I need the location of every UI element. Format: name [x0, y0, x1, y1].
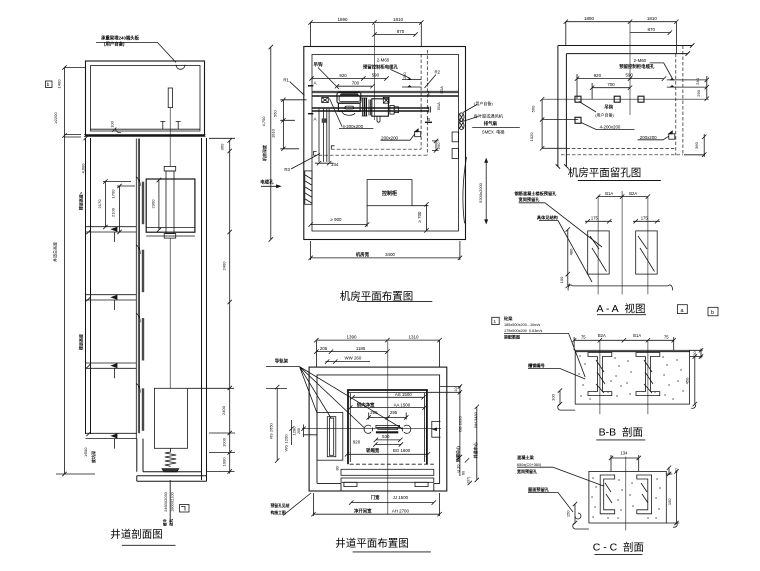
hoist rope lower [169, 238, 171, 388]
svg-text:200x200: 200x200 [640, 135, 657, 140]
beam section left [588, 231, 610, 274]
svg-text:砼梁: 砼梁 [504, 315, 513, 322]
svg-text:560: 560 [273, 109, 278, 116]
floor slab level2 [86, 227, 137, 242]
dim 360 [684, 134, 706, 157]
svg-text:井道平面布置图: 井道平面布置图 [335, 537, 409, 550]
dim 134 [609, 455, 641, 471]
marker box a [677, 305, 687, 314]
floor slab level4 [86, 363, 137, 378]
svg-text:B1A: B1A [436, 102, 441, 110]
svg-text:75: 75 [581, 334, 586, 339]
counterweight at pit [154, 388, 187, 448]
svg-text:机房宽: 机房宽 [356, 251, 370, 258]
gearbox flange [390, 105, 394, 114]
svg-text:250: 250 [436, 142, 441, 149]
svg-text:700: 700 [607, 82, 615, 87]
svg-text:1185: 1185 [356, 346, 366, 351]
section mark A bottom [308, 113, 313, 115]
car top wall [347, 389, 428, 391]
svg-text:920: 920 [594, 73, 602, 78]
shaft centerline vertical [387, 341, 389, 514]
dim 920 590 [575, 74, 666, 99]
guide rail leaders [266, 367, 402, 429]
dim 334 [315, 161, 334, 165]
centerline vertical [629, 22, 631, 115]
svg-text:U 20: U 20 [456, 464, 460, 472]
right wall rail bracket [432, 421, 441, 437]
ladder on left wall [305, 171, 312, 204]
dim 150 right CC [666, 469, 679, 527]
svg-text:920: 920 [353, 440, 361, 445]
sling bottom cap [164, 234, 176, 239]
pit front wall [137, 439, 143, 472]
svg-text:混凝土梁: 混凝土梁 [517, 454, 535, 461]
svg-text:4-200x200: 4-200x200 [342, 124, 363, 129]
I-beam left [588, 353, 612, 396]
svg-text:2170: 2170 [97, 199, 102, 209]
dim 50 BB [690, 348, 704, 359]
traction machine [337, 92, 361, 103]
svg-text:AS 1500: AS 1500 [395, 392, 412, 397]
svg-text:1800X2100: 1800X2100 [171, 492, 175, 511]
svg-text:60: 60 [462, 471, 466, 475]
door panel floor1 [142, 388, 144, 431]
dim 1390 1310 [314, 338, 442, 367]
dim 100 [566, 274, 570, 288]
note block 1 [492, 317, 499, 324]
svg-text:4,600: 4,600 [81, 163, 86, 174]
wall boxes right [452, 132, 458, 142]
svg-text:530: 530 [382, 434, 390, 439]
svg-text:≥2200: ≥2200 [53, 112, 58, 124]
svg-text:机房深度: 机房深度 [261, 144, 267, 161]
dim line 2300 car height [157, 178, 161, 232]
machine room inner wall [91, 66, 201, 132]
machine base [338, 103, 360, 111]
leader to structure note [283, 493, 311, 516]
svg-text:轿厢宽: 轿厢宽 [366, 447, 380, 454]
svg-text:R3: R3 [284, 167, 290, 172]
dim 5200x2000 rotated with arrows [485, 159, 487, 224]
svg-text:10: 10 [454, 387, 458, 391]
svg-text:≥ 900: ≥ 900 [331, 217, 343, 222]
car floor lines [146, 228, 195, 237]
svg-text:R2: R2 [435, 70, 441, 75]
front wall edge [135, 139, 137, 439]
right outer dimension line [188, 138, 235, 473]
machine beam 1 [312, 91, 459, 96]
svg-text:底坑: 底坑 [169, 519, 174, 528]
centerline horizontal [542, 98, 709, 100]
svg-text:100: 100 [551, 393, 556, 400]
svg-text:机房平面留孔图: 机房平面留孔图 [568, 166, 642, 179]
M60 arrows [408, 78, 411, 87]
buffer spring [165, 448, 176, 466]
car right wall [426, 390, 428, 464]
svg-text:295: 295 [390, 410, 398, 415]
svg-text:590: 590 [626, 72, 634, 77]
svg-text:b: b [47, 82, 50, 87]
machine centerline [374, 24, 376, 120]
svg-text:屋面预留孔: 屋面预留孔 [528, 486, 550, 493]
leader to B-B block [569, 333, 586, 377]
svg-text:920: 920 [339, 73, 347, 78]
motor in machine room [168, 88, 172, 108]
sheave side bars [363, 98, 367, 116]
marker box b2 [708, 307, 718, 316]
svg-text:100: 100 [110, 120, 115, 127]
svg-text:560: 560 [530, 105, 535, 112]
svg-text:构施工图: 构施工图 [271, 510, 286, 515]
svg-text:240: 240 [695, 77, 700, 84]
dim 920 590 [309, 76, 388, 80]
svg-text:1810: 1810 [393, 17, 404, 22]
concrete block CC [589, 471, 666, 523]
car sling vertical member [166, 171, 174, 234]
svg-text:净开间宽: 净开间宽 [354, 507, 372, 514]
svg-text:590: 590 [372, 73, 380, 78]
shaft right wall [202, 138, 207, 480]
brake drop [377, 116, 380, 122]
svg-text:井道总高度: 井道总高度 [52, 242, 58, 262]
car front dashed [350, 463, 434, 465]
svg-text:控制柜: 控制柜 [382, 190, 397, 197]
right dim cluster [428, 384, 479, 482]
svg-text:650x(C0+360): 650x(C0+360) [517, 463, 542, 467]
car cabin [146, 179, 195, 232]
svg-text:870: 870 [647, 27, 655, 32]
marker box b [46, 81, 53, 88]
svg-text:3400: 3400 [385, 252, 395, 257]
dim 205 1185 [314, 349, 389, 353]
svg-text:1390: 1390 [346, 335, 357, 340]
svg-text:梁配筋图: 梁配筋图 [503, 334, 520, 340]
svg-text:a: a [681, 308, 684, 314]
svg-text:200: 200 [297, 428, 301, 434]
svg-text:B2A: B2A [629, 191, 637, 196]
fan leaders [463, 105, 478, 122]
dim 450 BB [691, 354, 697, 408]
left dim 560 1020 [540, 97, 578, 151]
floor line with breaks [568, 285, 672, 290]
beam centerlines [598, 191, 648, 294]
svg-text:205: 205 [320, 346, 328, 351]
svg-text:290: 290 [696, 89, 701, 96]
concrete dots CC [592, 478, 660, 518]
MT outer left dim [269, 45, 273, 242]
svg-text:≥ 700: ≥ 700 [417, 211, 422, 223]
svg-text:导轨架: 导轨架 [275, 357, 289, 364]
dim 480 [566, 227, 570, 276]
note leader 1 [545, 203, 602, 247]
svg-text:A - A 视图: A - A 视图 [596, 302, 645, 315]
svg-text:2400: 2400 [222, 261, 227, 271]
leader CC [553, 467, 604, 486]
dim 700 [335, 84, 375, 88]
svg-text:B1A: B1A [633, 333, 641, 338]
shaft outer wall [309, 367, 447, 491]
hook T left [160, 122, 165, 130]
svg-text:150: 150 [667, 498, 672, 505]
dim >=900 [308, 206, 369, 227]
right dim 240 290 [705, 76, 709, 101]
svg-text:宽同预留孔: 宽同预留孔 [518, 196, 541, 203]
loop symbol [575, 513, 581, 519]
left dim cluster [266, 385, 318, 463]
left outer dimension line [56, 65, 95, 476]
svg-text:钢筋混凝土楼板预留孔: 钢筋混凝土楼板预留孔 [514, 190, 557, 197]
concrete dots [579, 356, 683, 399]
ventilation fan on right wall [459, 113, 464, 121]
shaft left wall [86, 138, 91, 434]
left dim 560 1010 [280, 98, 306, 151]
beam column lines left [319, 108, 329, 162]
svg-text:百叶窗或通风机: 百叶窗或通风机 [474, 113, 504, 120]
beam centerlines BB [600, 340, 648, 414]
svg-text:2300: 2300 [151, 199, 156, 209]
svg-text:175x500x200 0.63m/s: 175x500x200 0.63m/s [504, 329, 543, 333]
svg-text:2-M60: 2-M60 [634, 58, 647, 63]
dim 100 BB [558, 388, 575, 410]
title underline [357, 301, 432, 303]
svg-text:C - C 剖面: C - C 剖面 [593, 540, 644, 553]
title underline [122, 544, 176, 546]
dim 3400 [308, 241, 462, 260]
hoist rope upper [169, 108, 171, 167]
svg-text:295: 295 [370, 410, 378, 415]
hole flag symbol [669, 134, 675, 139]
dim 870 [630, 30, 672, 34]
dim line 1890 1810 [308, 20, 423, 47]
svg-text:预留控制柜电缆孔: 预留控制柜电缆孔 [619, 63, 655, 70]
svg-text:(用户自备): (用户自备) [474, 100, 493, 106]
svg-text:R1: R1 [283, 78, 289, 83]
pit centerline below [169, 480, 171, 524]
svg-text:185x500x200...10m/s: 185x500x200...10m/s [504, 323, 540, 327]
dashed outline [561, 46, 683, 156]
landing sill bar 2 [341, 478, 434, 482]
svg-text:334: 334 [331, 162, 339, 167]
svg-text:电缆孔: 电缆孔 [260, 178, 274, 185]
svg-text:B1A: B1A [605, 191, 613, 196]
bearing box left [322, 97, 329, 102]
svg-text:WW 260: WW 260 [344, 356, 361, 361]
svg-text:吊钩: 吊钩 [604, 103, 613, 110]
svg-text:BH 3430: BH 3430 [473, 411, 478, 427]
svg-text:1890: 1890 [584, 16, 595, 21]
shaft centerline horizontal [302, 428, 441, 430]
svg-text:轿厢中心: 轿厢中心 [454, 446, 460, 462]
dim line 2170 [103, 179, 131, 229]
svg-text:2400: 2400 [221, 405, 226, 415]
svg-text:4,700: 4,700 [261, 116, 266, 127]
svg-text:吊钩: 吊钩 [313, 61, 323, 68]
title underline [353, 551, 431, 553]
svg-text:1000: 1000 [222, 457, 227, 467]
note leader 2 [558, 221, 592, 283]
I-beam right [636, 353, 660, 396]
C channel right [637, 475, 652, 514]
sill feet [344, 482, 357, 486]
svg-text:门宽: 门宽 [371, 494, 380, 501]
svg-text:2-M60: 2-M60 [377, 57, 390, 62]
hole 4 [575, 117, 581, 123]
svg-text:1890: 1890 [337, 17, 348, 22]
M60 arrows [671, 78, 674, 87]
hole 1 [575, 96, 581, 102]
dim 1890 1810 [564, 20, 679, 55]
svg-text:250: 250 [402, 72, 407, 79]
svg-text:机房平面布置图: 机房平面布置图 [340, 290, 414, 303]
svg-text:B2A: B2A [598, 333, 606, 338]
label SMEX elevator [472, 127, 520, 129]
machine room outer wall [304, 47, 466, 240]
pit floor [137, 472, 207, 482]
concrete block [575, 350, 689, 404]
dim >=700 [412, 202, 429, 233]
svg-text:1700: 1700 [111, 189, 116, 199]
M60 bolt lines [402, 80, 421, 87]
svg-text:楼层高度: 楼层高度 [78, 333, 84, 350]
wall floor ticks [84, 136, 91, 436]
svg-text:5200x2000: 5200x2000 [478, 182, 483, 203]
svg-text:A: A [314, 81, 318, 86]
buffer base [162, 469, 179, 472]
machine room floor slab [84, 129, 206, 136]
gearbox [372, 99, 389, 116]
svg-text:楼层高度>: 楼层高度> [78, 191, 84, 210]
svg-text:4-200x200: 4-200x200 [600, 124, 621, 129]
svg-text:井道中心: 井道中心 [472, 442, 478, 458]
svg-text:承重梁埋240端头板: 承重梁埋240端头板 [101, 35, 140, 42]
svg-text:870: 870 [397, 29, 405, 34]
svg-text:井道剖面图: 井道剖面图 [110, 528, 163, 541]
svg-text:1400: 1400 [57, 79, 62, 89]
svg-text:134: 134 [620, 451, 628, 456]
svg-text:100: 100 [559, 276, 564, 283]
svg-text:1: 1 [494, 319, 497, 324]
door panel floor2 [142, 182, 144, 225]
dim 700 [590, 83, 632, 99]
svg-text:缓冲: 缓冲 [162, 519, 167, 527]
floor slab level1 [86, 433, 137, 448]
svg-text:JJ 1500: JJ 1500 [393, 495, 409, 500]
machine bottom arc [342, 111, 355, 115]
hole 2 [614, 96, 620, 102]
svg-text:RS 2650: RS 2650 [269, 422, 274, 438]
shaft inner wall [317, 375, 440, 491]
svg-text:1000: 1000 [222, 437, 227, 447]
svg-text:预留孔见结: 预留孔见结 [271, 503, 290, 508]
svg-text:2460X2030: 2460X2030 [164, 492, 168, 511]
svg-text:175: 175 [591, 215, 599, 220]
section mark A top [308, 85, 313, 87]
hook T right [176, 122, 181, 130]
svg-text:(用户自备): (用户自备) [595, 112, 614, 118]
svg-text:底坑深: 底坑深 [90, 451, 96, 464]
centerline CC [625, 457, 627, 531]
svg-text:排气扇: 排气扇 [484, 120, 498, 127]
svg-text:A: A [314, 117, 318, 122]
hole 3 [638, 96, 644, 102]
floor slab level3 [86, 295, 137, 310]
svg-text:AA 1500: AA 1500 [394, 403, 411, 408]
svg-text:450: 450 [685, 377, 690, 384]
counterweight [327, 417, 336, 457]
svg-text:B: B [427, 117, 430, 122]
svg-text:75: 75 [664, 334, 669, 339]
machine beam 2 [312, 107, 431, 113]
C channel left [600, 475, 615, 514]
landing sill bar 1 [341, 469, 434, 475]
dashed shaft outline [313, 50, 428, 155]
marker box at pit [180, 505, 190, 513]
dim line 2100 1700 [117, 184, 135, 234]
door panel floor3 [142, 250, 144, 293]
bearing box right [383, 97, 389, 103]
counterweight frame [317, 413, 343, 461]
svg-text:700: 700 [352, 81, 360, 86]
guide rail pair [138, 139, 139, 434]
machine room inner wall [312, 55, 459, 232]
svg-text:1810: 1810 [647, 16, 658, 21]
guide shoe left [364, 425, 373, 433]
svg-text:1020: 1020 [529, 132, 534, 142]
dim WW 260 [325, 359, 370, 363]
guide shoe right [402, 425, 411, 433]
svg-text:B-B 剖面: B-B 剖面 [599, 426, 643, 439]
svg-text:BG 1600: BG 1600 [393, 448, 411, 453]
svg-text:(37): (37) [467, 476, 471, 483]
beam section right [636, 231, 658, 274]
svg-text:1010: 1010 [271, 128, 276, 138]
door operator stack [376, 425, 400, 427]
dim line 870 [372, 32, 417, 36]
control cabinet [367, 180, 412, 206]
svg-text:1280: 1280 [291, 426, 296, 436]
svg-text:150: 150 [566, 510, 571, 517]
hole symbol with flag [415, 132, 421, 137]
left wall [556, 46, 569, 169]
svg-text:≥500: ≥500 [83, 447, 88, 457]
svg-text:预留控制柜电缆孔: 预留控制柜电缆孔 [363, 64, 399, 71]
door panel floor4 [142, 318, 144, 361]
svg-text:360: 360 [694, 141, 699, 148]
svg-text:具体见结构: 具体见结构 [537, 214, 558, 221]
svg-text:b: b [711, 310, 714, 316]
M60 bolt lines [667, 80, 708, 87]
svg-text:(用户自备): (用户自备) [104, 41, 125, 48]
svg-text:80: 80 [334, 465, 339, 470]
top wall [558, 43, 695, 56]
svg-text:480: 480 [569, 248, 574, 255]
svg-text:WG 1200: WG 1200 [284, 434, 289, 452]
svg-text:宽同预留孔: 宽同预留孔 [516, 468, 537, 474]
machine room outer wall [86, 61, 205, 136]
svg-text:AH 2700: AH 2700 [392, 508, 410, 513]
svg-text:2100: 2100 [111, 207, 116, 217]
roof note leader [96, 43, 185, 70]
car left wall [347, 390, 349, 464]
svg-text:OB 2620: OB 2620 [457, 416, 462, 433]
wall break curve [463, 157, 467, 223]
svg-text:B2A: B2A [439, 86, 444, 94]
dim 75 B2A B1A 75 [572, 337, 676, 350]
svg-text:1310: 1310 [408, 335, 419, 340]
svg-text:360: 360 [220, 143, 225, 150]
dim 150 left CC [573, 502, 589, 529]
